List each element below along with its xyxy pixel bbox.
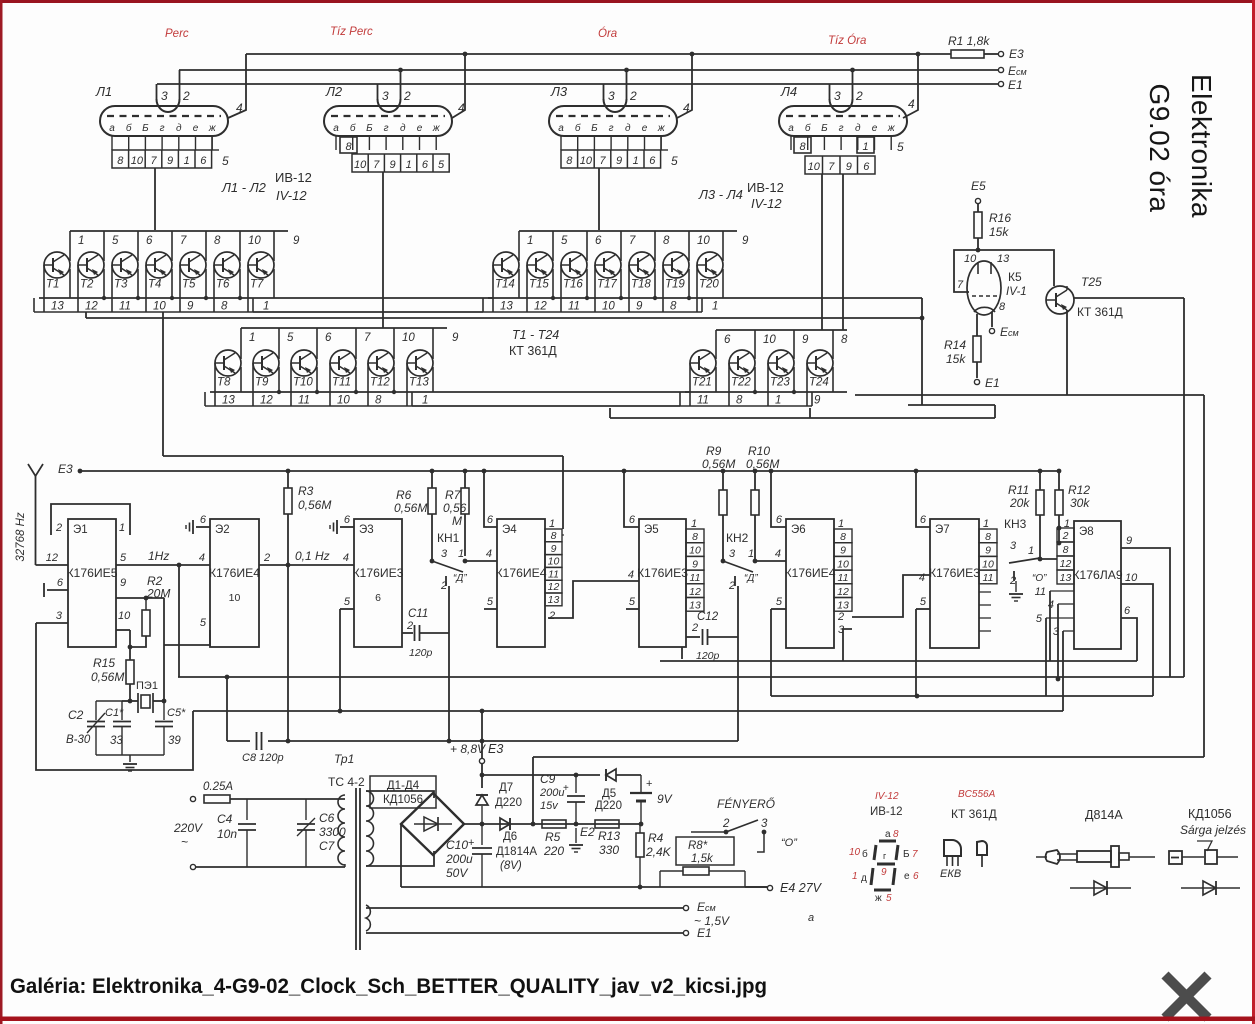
svg-text:8: 8 <box>841 334 848 346</box>
svg-text:Э1: Э1 <box>73 524 88 536</box>
svg-text:9: 9 <box>452 332 459 344</box>
wire T21 base drop <box>689 363 691 406</box>
wire mains top <box>230 798 345 800</box>
svg-text:T13: T13 <box>409 377 429 389</box>
label box D1-D4 KD1056 <box>370 776 436 808</box>
transistor row T8-T13 pin number strip <box>205 405 412 407</box>
svg-text:7: 7 <box>957 279 964 291</box>
svg-text:8: 8 <box>214 235 221 247</box>
wire T8 emitter to bottom rail <box>240 367 242 392</box>
svg-text:4: 4 <box>458 101 465 115</box>
svg-text:C4: C4 <box>217 812 233 826</box>
svg-text:1: 1 <box>838 518 844 530</box>
svg-text:2: 2 <box>855 89 863 103</box>
svg-text:1: 1 <box>549 518 555 530</box>
IC U5 right pin stack <box>686 529 704 543</box>
wire heater to E1 <box>366 932 683 934</box>
wire drop x995 <box>994 405 996 418</box>
bridge inner diode <box>414 823 452 825</box>
svg-text:4: 4 <box>908 97 915 111</box>
terminal E1 <box>998 81 1003 86</box>
resistor R1 <box>951 50 984 58</box>
diode D6 <box>500 818 510 830</box>
svg-text:+: + <box>563 783 569 794</box>
svg-text:12: 12 <box>85 301 98 313</box>
transistor row T1-T7 emitter rail <box>39 297 288 299</box>
svg-text:0,56M: 0,56M <box>91 670 124 684</box>
svg-text:КТ 361Д: КТ 361Д <box>1077 305 1123 319</box>
svg-text:1Hz: 1Hz <box>148 549 169 563</box>
svg-text:8: 8 <box>999 301 1006 313</box>
svg-text:1: 1 <box>852 871 858 882</box>
svg-text:R9: R9 <box>706 444 722 458</box>
svg-text:C11: C11 <box>408 608 428 620</box>
svg-text:9: 9 <box>187 301 194 313</box>
svg-text:К176ИЕ5: К176ИЕ5 <box>66 566 117 580</box>
svg-text:E3: E3 <box>488 742 503 756</box>
diode symbol KD1056 <box>1181 887 1240 889</box>
svg-text:11: 11 <box>838 572 849 584</box>
svg-text:д: д <box>400 123 406 134</box>
svg-text:5: 5 <box>561 235 568 247</box>
svg-text:10: 10 <box>602 301 615 313</box>
svg-text:ПЭ1: ПЭ1 <box>136 680 158 692</box>
wire tube L3 to T14-T20 row <box>598 168 600 230</box>
svg-text:Б: Б <box>142 123 149 134</box>
svg-text:ж: ж <box>432 123 441 134</box>
terminal mains bottom <box>190 864 195 869</box>
tube L4 (IV-12) body <box>779 106 907 136</box>
resistor R15 <box>126 660 134 684</box>
svg-text:8: 8 <box>799 141 806 153</box>
svg-text:1,5k: 1,5k <box>691 853 714 865</box>
wire T4 emitter to bottom rail <box>171 269 173 298</box>
tube L4 segment pin leads <box>790 136 792 150</box>
wire T20 base drop <box>696 265 698 312</box>
transformer primary winding <box>338 795 345 865</box>
svg-text:7: 7 <box>150 155 157 167</box>
svg-text:8: 8 <box>551 530 557 542</box>
wire row3 to row4 pin strip link <box>412 405 680 407</box>
svg-text:9: 9 <box>846 161 852 173</box>
svg-text:2: 2 <box>837 611 844 623</box>
svg-text:C5*: C5* <box>167 707 186 719</box>
svg-text:13: 13 <box>837 600 849 612</box>
svg-text:10: 10 <box>964 253 977 265</box>
svg-text:9: 9 <box>167 155 173 167</box>
tube L3 pin 4 wire to E3 bus <box>677 54 692 118</box>
transistor T8 <box>215 350 241 376</box>
terminal Ecm bottom <box>683 905 688 910</box>
diode D7 <box>476 795 488 805</box>
resistor R5 <box>542 820 566 828</box>
wire 1Hz net <box>116 564 210 566</box>
svg-text:C6: C6 <box>319 811 335 825</box>
svg-text:Д6: Д6 <box>503 831 517 843</box>
wire E1 top bus <box>157 83 998 85</box>
transformer secondary winding <box>366 791 374 866</box>
resistor R3 <box>287 471 289 488</box>
wire T14 base drop <box>492 265 494 312</box>
transistor T6 <box>214 252 240 278</box>
svg-text:9: 9 <box>881 867 887 878</box>
svg-text:1: 1 <box>422 395 428 407</box>
svg-text:Э6: Э6 <box>791 524 806 536</box>
svg-text:ИВ-12: ИВ-12 <box>870 806 903 818</box>
wire T9 collector to top rail <box>278 328 280 359</box>
svg-text:Тр1: Тр1 <box>334 752 354 766</box>
svg-text:1: 1 <box>184 155 190 167</box>
svg-text:R15: R15 <box>93 656 115 670</box>
svg-text:Б: Б <box>821 123 828 134</box>
svg-text:T24: T24 <box>809 377 829 389</box>
svg-text:3: 3 <box>729 548 736 560</box>
svg-text:3: 3 <box>761 818 768 830</box>
wire T14 emitter to bottom rail <box>518 269 520 298</box>
terminal E1 bottom <box>683 930 688 935</box>
svg-text:Д220: Д220 <box>495 797 522 809</box>
wire T24 base drop <box>806 363 808 406</box>
svg-text:10: 10 <box>763 334 776 346</box>
svg-text:T9: T9 <box>255 377 269 389</box>
wire tube L2 down to T8-T13 row <box>382 172 384 328</box>
svg-text:6: 6 <box>913 871 919 882</box>
transistor package small <box>977 841 987 855</box>
svg-text:Э7: Э7 <box>935 524 950 536</box>
svg-text:E3: E3 <box>1009 47 1024 61</box>
svg-text:д: д <box>855 123 861 134</box>
wire junction L2 pin2 <box>398 68 403 73</box>
svg-text:ИВ-12: ИВ-12 <box>747 180 784 195</box>
wire secondary bottom to bridge <box>366 851 434 866</box>
diode symbol D814A <box>1070 887 1131 889</box>
svg-text:32768 Hz: 32768 Hz <box>15 512 27 561</box>
svg-text:5: 5 <box>438 159 445 171</box>
wire T25 emitter down <box>1066 310 1068 395</box>
svg-text:12: 12 <box>548 581 560 593</box>
wire T6 collector to top rail <box>239 231 241 261</box>
wire bus y711 <box>193 710 1063 712</box>
svg-text:R6: R6 <box>396 488 412 502</box>
svg-text:T21: T21 <box>692 377 712 389</box>
svg-text:ж: ж <box>875 893 882 904</box>
wire T18 base drop <box>628 265 630 312</box>
svg-text:11: 11 <box>548 568 559 580</box>
tube L3 top notch <box>604 99 627 112</box>
svg-text:Д7: Д7 <box>499 782 513 794</box>
wire T23 emitter to bottom rail <box>793 367 795 392</box>
capacitor C6 C7 <box>305 799 307 820</box>
transistor row T14-T20 collector rail <box>519 230 737 232</box>
svg-text:B-30: B-30 <box>66 734 91 746</box>
IC U5 pin 6 wire <box>622 469 627 474</box>
wire T15 collector to top rail <box>552 231 554 261</box>
wire T16 base drop <box>560 265 562 312</box>
svg-text:8: 8 <box>1063 544 1069 556</box>
svg-text:6: 6 <box>649 155 656 167</box>
svg-text:е: е <box>642 123 648 134</box>
tube L4 pin number boxes 10 7 9 6 <box>805 156 875 174</box>
terminal Ecm K5 <box>989 328 994 333</box>
svg-text:11: 11 <box>697 395 709 407</box>
wire T22 collector to top rail <box>754 330 756 359</box>
wire crystal row <box>122 700 138 702</box>
svg-text:R3: R3 <box>298 484 314 498</box>
svg-text:8: 8 <box>985 531 991 543</box>
wire T19 base drop <box>662 265 664 312</box>
svg-text:б: б <box>805 122 811 134</box>
svg-text:КН1: КН1 <box>437 531 460 545</box>
svg-text:а: а <box>558 123 564 134</box>
IC U1 pin 10 wire <box>116 629 130 631</box>
wire tube L4 down to T21-T24 row (a) <box>821 174 823 330</box>
svg-text:6: 6 <box>57 577 64 589</box>
wire T7 base drop <box>247 265 249 312</box>
IC U8 left pin stack 2 8 12 13 <box>1057 528 1074 542</box>
svg-text:20k: 20k <box>1009 496 1030 510</box>
wire junction L4 pin4 <box>916 52 921 57</box>
svg-text:10: 10 <box>849 847 861 858</box>
tube L2 pin box 8 <box>340 137 357 153</box>
svg-text:T4: T4 <box>148 279 161 291</box>
svg-text:1: 1 <box>119 522 125 534</box>
svg-text:2: 2 <box>403 89 411 103</box>
tube L3 (IV-12) body <box>549 106 677 136</box>
transistor row T21-T24 emitter rail <box>685 391 847 393</box>
svg-text:г: г <box>384 123 389 134</box>
svg-text:12: 12 <box>1060 558 1072 570</box>
wire T1 base drop <box>43 265 45 312</box>
tube L3 pin 2 wire to Ecm bus <box>626 70 628 100</box>
IC U1 pin 3 wire <box>36 622 68 624</box>
svg-text:T15: T15 <box>529 279 549 291</box>
transistor T20 <box>697 252 723 278</box>
tube L4 pin 4 wire to E3 bus <box>903 54 918 118</box>
node K5 grid <box>976 248 981 253</box>
svg-text:б: б <box>575 122 581 134</box>
wire KH2 pole down <box>737 586 739 741</box>
antenna <box>28 464 43 476</box>
svg-text:1: 1 <box>1028 545 1034 557</box>
svg-text:0.25A: 0.25A <box>203 781 233 793</box>
oscillator ground rail <box>96 754 164 756</box>
wire below E5 <box>681 647 683 659</box>
svg-text:е: е <box>872 123 878 134</box>
svg-text:5: 5 <box>222 154 229 168</box>
svg-text:Э8: Э8 <box>1079 526 1094 538</box>
svg-text:Э2: Э2 <box>215 524 230 536</box>
svg-text:10: 10 <box>982 558 994 570</box>
svg-text:Л2: Л2 <box>325 84 343 99</box>
svg-text:Д1-Д4: Д1-Д4 <box>387 780 420 792</box>
wire junction L2 pin4 <box>463 52 468 57</box>
svg-text:13: 13 <box>997 253 1010 265</box>
svg-text:5: 5 <box>920 596 927 608</box>
tube L1 pin 4 wire to E3 bus <box>228 54 246 118</box>
wire T2 emitter to bottom rail <box>103 269 105 298</box>
transistor row T21-T24 collector rail <box>716 329 847 331</box>
wire long horizontal y395 <box>855 394 1204 396</box>
resistor R8 <box>683 867 709 875</box>
svg-text:R7: R7 <box>445 488 462 502</box>
svg-text:Л1: Л1 <box>95 84 112 99</box>
tube L1 pin number boxes 8 10 7 9 1 6 <box>112 150 212 168</box>
svg-text:T6: T6 <box>216 279 230 291</box>
svg-text:10: 10 <box>131 155 144 167</box>
seven segment indicator pinout <box>879 840 896 843</box>
wire bus y696 <box>771 695 1153 697</box>
svg-text:2: 2 <box>629 89 637 103</box>
wire E2 pin5 to crystal node <box>164 630 210 645</box>
svg-text:3: 3 <box>161 89 168 103</box>
svg-text:2: 2 <box>691 622 698 634</box>
svg-text:R11: R11 <box>1008 483 1029 497</box>
svg-text:0,56M: 0,56M <box>702 457 735 471</box>
tube L4 pin 2 wire to Ecm bus <box>852 70 854 100</box>
transistor T16 <box>561 252 587 278</box>
IC U4 pin 5 label <box>484 608 497 610</box>
wire T5 collector to top rail <box>205 231 207 261</box>
svg-text:R12: R12 <box>1068 483 1090 497</box>
svg-text:T23: T23 <box>770 377 790 389</box>
svg-text:3: 3 <box>608 89 615 103</box>
svg-text:Д1814А: Д1814А <box>496 846 537 858</box>
svg-text:E5: E5 <box>971 179 986 193</box>
svg-text:C10: C10 <box>446 838 468 852</box>
svg-text:КН2: КН2 <box>726 531 749 545</box>
svg-text:5: 5 <box>120 552 127 564</box>
wire R3 down to y741 bus <box>287 514 289 741</box>
wire drop x610 <box>609 408 611 418</box>
svg-text:+: + <box>646 778 652 790</box>
svg-text:IV-1: IV-1 <box>1006 286 1027 298</box>
tube L1 pin 5 lead <box>211 136 213 150</box>
transistor T22 <box>729 350 755 376</box>
resistor R2 <box>145 598 147 610</box>
svg-text:7: 7 <box>180 235 187 247</box>
svg-text:5: 5 <box>1036 613 1043 625</box>
tube L2 pin number boxes 10 7 9 1 6 5 <box>352 154 449 172</box>
svg-text:2: 2 <box>548 610 555 622</box>
svg-text:9: 9 <box>742 235 749 247</box>
wire E5 to R16 <box>977 204 979 212</box>
svg-text:E1: E1 <box>985 376 1000 390</box>
svg-text:5: 5 <box>112 235 119 247</box>
svg-text:8: 8 <box>221 301 228 313</box>
wire T9 emitter to bottom rail <box>278 367 280 392</box>
svg-text:5: 5 <box>629 596 636 608</box>
wire node to T25 base <box>978 250 1054 286</box>
wire tube L1 to T1-T7 row <box>154 168 156 230</box>
svg-text:6: 6 <box>595 235 602 247</box>
wire bus y677 <box>178 676 1184 678</box>
wire R14 to E1 terminal <box>976 362 978 378</box>
wire T11 collector to top rail <box>355 328 357 359</box>
svg-text:BC556A: BC556A <box>958 789 996 800</box>
svg-text:8: 8 <box>670 301 677 313</box>
wire bus y741 <box>227 740 738 742</box>
svg-text:T14: T14 <box>495 279 515 291</box>
svg-text:1: 1 <box>862 141 868 153</box>
IC U6 pin 6 wire <box>769 469 774 474</box>
svg-text:C2: C2 <box>68 708 84 722</box>
svg-text:T22: T22 <box>731 377 751 389</box>
resistor R14 <box>973 336 981 362</box>
svg-text:220: 220 <box>543 844 564 858</box>
svg-text:T10: T10 <box>293 377 313 389</box>
terminal E5 <box>975 198 980 203</box>
wire T13 collector to top rail <box>432 328 434 359</box>
capacitor C1* <box>121 701 123 720</box>
wire T13 emitter to bottom rail <box>432 367 434 392</box>
svg-text:5: 5 <box>897 140 904 154</box>
wire T9 base drop <box>252 363 254 406</box>
svg-text:“Д”: “Д” <box>744 573 758 584</box>
svg-text:7: 7 <box>629 235 636 247</box>
svg-text:R10: R10 <box>748 444 770 458</box>
wire bus y757 <box>533 756 1204 758</box>
svg-text:8: 8 <box>117 155 124 167</box>
wire T13 base drop <box>406 363 408 406</box>
wire row3 to row4 emitter rail link <box>447 391 690 393</box>
diode D5 <box>606 769 616 781</box>
svg-text:T11: T11 <box>332 377 351 389</box>
svg-text:6: 6 <box>1124 605 1131 617</box>
IC U6 right pin stack <box>834 529 852 543</box>
svg-text:К5: К5 <box>1008 270 1022 284</box>
svg-text:1: 1 <box>748 548 754 560</box>
wire T20 collector to top rail <box>722 231 724 261</box>
svg-text:7: 7 <box>373 159 380 171</box>
IC U7 right pin stack <box>979 529 997 543</box>
svg-text:8: 8 <box>736 395 743 407</box>
transistor T10 <box>291 350 317 376</box>
svg-text:9: 9 <box>293 235 300 247</box>
svg-text:8: 8 <box>663 235 670 247</box>
svg-text:9V: 9V <box>657 792 673 806</box>
svg-text:5: 5 <box>344 596 351 608</box>
svg-text:Д5: Д5 <box>602 788 616 800</box>
svg-text:0,56M: 0,56M <box>394 501 427 515</box>
transistor T11 <box>330 350 356 376</box>
svg-text:КН3: КН3 <box>1004 517 1027 531</box>
tube L2 (IV-12) body <box>324 106 452 136</box>
svg-text:11: 11 <box>1035 586 1046 598</box>
svg-text:5: 5 <box>776 596 783 608</box>
svg-text:ТС 4-2: ТС 4-2 <box>328 775 365 789</box>
svg-text:6: 6 <box>146 235 153 247</box>
svg-text:T18: T18 <box>631 279 651 291</box>
transistor T7 <box>248 252 274 278</box>
wire 1Hz node down to bus y677 <box>178 565 180 677</box>
resistor R7 <box>463 469 468 474</box>
wire y775 rail <box>482 774 600 776</box>
svg-text:39: 39 <box>168 735 181 747</box>
svg-text:2: 2 <box>263 552 270 564</box>
svg-text:8: 8 <box>375 395 382 407</box>
svg-text:9: 9 <box>616 155 622 167</box>
svg-text:Л3 - Л4: Л3 - Л4 <box>698 187 743 202</box>
IC U1 K176IE5 <box>68 519 116 647</box>
wire T20 emitter to bottom rail <box>722 269 724 298</box>
wire bridge plus rail <box>464 823 640 825</box>
wire T4 collector to top rail <box>171 231 173 261</box>
svg-text:FÉNYERŐ: FÉNYERŐ <box>717 796 775 811</box>
svg-text:6: 6 <box>920 514 927 526</box>
svg-text:7: 7 <box>364 332 371 344</box>
transistor T14 <box>493 252 519 278</box>
svg-text:T3: T3 <box>114 279 128 291</box>
